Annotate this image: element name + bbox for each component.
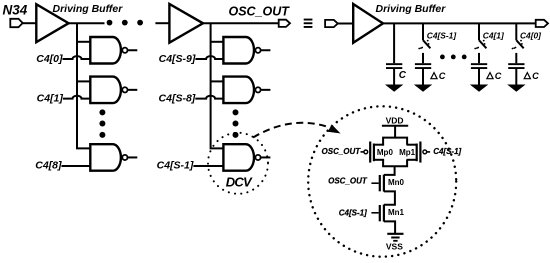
svg-text:C4[8]: C4[8] bbox=[35, 159, 62, 171]
label delta C b1 bbox=[431, 71, 446, 81]
wire N34 to buffer bbox=[23, 22, 37, 24]
wire C4[S-8] with hop bbox=[195, 96, 223, 99]
capacitor dC b3 bbox=[508, 63, 524, 85]
svg-text:C4[S-1]: C4[S-1] bbox=[339, 208, 367, 217]
switch branch C4[1] bbox=[474, 23, 486, 63]
svg-text:Mp0: Mp0 bbox=[377, 148, 394, 157]
capacitor dC b2 bbox=[471, 63, 487, 85]
wire bottom rail bbox=[383, 160, 407, 167]
port OSC_OUT far right bbox=[536, 20, 548, 27]
buffer U2 bbox=[169, 4, 203, 43]
wire Mn1 to ground bbox=[384, 221, 395, 233]
switch branch C4[S-1] bbox=[418, 23, 430, 63]
dotted ellipse detail view bbox=[308, 106, 456, 256]
wire bus1 stub row1 bbox=[77, 41, 90, 43]
svg-text:C: C bbox=[495, 71, 502, 81]
nand gate G4 bbox=[223, 77, 270, 104]
port N34 bbox=[10, 19, 22, 27]
svg-text:VDD: VDD bbox=[386, 115, 404, 125]
svg-text:C: C bbox=[532, 71, 539, 81]
switch branch C4[0] bbox=[512, 23, 524, 63]
wire main output rail bbox=[382, 22, 536, 24]
wire buffer2 output bbox=[202, 22, 279, 24]
wire buffer1 output bbox=[68, 22, 105, 24]
nand gate G2 bbox=[90, 144, 137, 171]
ground VSS bbox=[387, 234, 403, 241]
wire bus1 bbox=[77, 23, 90, 148]
pmos Mp1 bbox=[407, 142, 431, 163]
capacitor dC b1 bbox=[415, 63, 431, 85]
nmos Mn1 bbox=[371, 205, 384, 222]
svg-text:C4[0]: C4[0] bbox=[36, 53, 63, 65]
equivalence symbol bbox=[304, 19, 313, 28]
svg-text:Mn0: Mn0 bbox=[388, 178, 405, 187]
svg-text:DCV: DCV bbox=[226, 174, 253, 189]
wire bus2 stub row2 bbox=[211, 80, 224, 82]
ground b2 bbox=[471, 85, 487, 91]
port input right bbox=[325, 20, 338, 27]
nand gate G0 bbox=[90, 37, 137, 64]
svg-text:C4[S-9]: C4[S-9] bbox=[159, 53, 196, 65]
svg-text:Mn1: Mn1 bbox=[388, 208, 405, 217]
wire bus2 stub row1 bbox=[211, 41, 224, 43]
nmos Mn0 bbox=[371, 175, 384, 192]
svg-text:C4[S-1]: C4[S-1] bbox=[427, 31, 458, 41]
dotted circle around DCV bbox=[208, 133, 268, 194]
dots column2 bbox=[233, 109, 239, 115]
wire C4[1] with hop bbox=[63, 96, 90, 99]
buffer U1 Driving Buffer bbox=[36, 4, 68, 42]
nand gate G1 bbox=[90, 77, 137, 104]
port OSC_OUT bbox=[279, 20, 290, 27]
svg-text:N34: N34 bbox=[3, 2, 28, 17]
svg-text:Mp1: Mp1 bbox=[399, 148, 416, 157]
svg-text:C4[S-1]: C4[S-1] bbox=[433, 147, 461, 156]
label delta C b3 bbox=[524, 71, 539, 81]
VDD bar bbox=[382, 125, 408, 127]
wire top rail bbox=[383, 138, 407, 145]
svg-text:Driving Buffer: Driving Buffer bbox=[53, 3, 124, 15]
svg-text:C4[0]: C4[0] bbox=[520, 31, 542, 41]
wire port to buffer3 bbox=[338, 23, 353, 25]
svg-text:C4[1]: C4[1] bbox=[37, 92, 64, 104]
svg-text:OSC_OUT: OSC_OUT bbox=[328, 177, 368, 186]
dots branches bbox=[440, 55, 445, 60]
svg-text:Driving Buffer: Driving Buffer bbox=[376, 3, 447, 15]
wire C4[S-9] with hop bbox=[195, 56, 223, 59]
nand gate G5 DCV bbox=[223, 144, 270, 171]
wire C4[0] with hop bbox=[63, 56, 91, 59]
svg-text:C: C bbox=[439, 71, 446, 81]
capacitor C branch bbox=[386, 23, 402, 85]
ground b3 bbox=[508, 85, 524, 91]
wire bus1 stub row2 bbox=[77, 80, 90, 82]
wire vdd stem bbox=[394, 126, 396, 138]
dots column1 bbox=[99, 109, 105, 115]
ground b1 bbox=[415, 85, 431, 91]
wire to buffer2 bbox=[155, 22, 169, 24]
wire C4[S-1] bbox=[193, 165, 223, 167]
wire C4[8] bbox=[62, 165, 91, 167]
buffer U3 Driving Buffer bbox=[353, 4, 383, 43]
svg-text:C4[S-8]: C4[S-8] bbox=[159, 92, 196, 104]
label delta C b2 bbox=[487, 71, 502, 81]
svg-text:C: C bbox=[399, 70, 407, 81]
ground b0 bbox=[386, 85, 402, 91]
nand gate G3 bbox=[223, 37, 270, 64]
pmos Mp0 bbox=[361, 142, 385, 163]
dashed arrow DCV to detail bbox=[253, 123, 329, 138]
dots continuation top bbox=[107, 20, 113, 26]
wire bus2 bbox=[211, 23, 224, 148]
wire rail to Mn0 bbox=[384, 166, 395, 175]
svg-text:OSC_OUT: OSC_OUT bbox=[229, 5, 291, 19]
svg-text:C4[1]: C4[1] bbox=[483, 31, 505, 41]
svg-text:VSS: VSS bbox=[386, 242, 403, 252]
svg-text:C4[S-1]: C4[S-1] bbox=[157, 159, 194, 171]
svg-text:OSC_OUT: OSC_OUT bbox=[322, 147, 362, 156]
wire Mn0 to Mn1 bbox=[384, 191, 395, 204]
